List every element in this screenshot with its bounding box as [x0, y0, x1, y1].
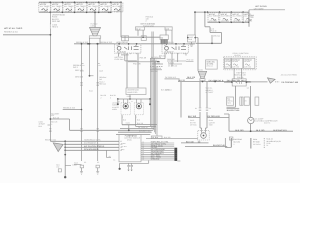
ignition switch contact (staircase): [196, 11, 222, 44]
wire - trunk YEL 97: [97, 43, 99, 161]
svg-text:RED 2: RED 2: [52, 26, 59, 29]
wire - long horn feed horizontal: [178, 81, 251, 83]
label - horn right flag: [229, 137, 233, 140]
svg-text:ASSY 4: ASSY 4: [264, 122, 270, 125]
svg-text:2: 2: [51, 123, 52, 126]
svg-text:CONTROL MODULE: CONTROL MODULE: [124, 137, 141, 140]
wire - horn feed from left trunk: [50, 116, 70, 130]
underhood fuse block bus (bottom): [39, 11, 109, 13]
svg-text:BRN 241: BRN 241: [159, 54, 166, 57]
theft relay box: [224, 68, 251, 89]
legend column 1: [225, 138, 242, 148]
wire - ip fuse stub down: [249, 10, 255, 27]
fusible link A (funnel symbol): [89, 11, 100, 38]
svg-text:ALL TIMES: ALL TIMES: [100, 5, 110, 8]
connector C100 on drop: [50, 23, 59, 29]
wire - ignition feed 2: [136, 27, 173, 44]
fuse F4: [75, 2, 87, 13]
svg-text:C2 BLU: C2 BLU: [165, 88, 172, 91]
svg-text:ALL TIMES: ALL TIMES: [76, 5, 86, 8]
connector C on feed: [122, 36, 147, 41]
svg-text:SWITCH ASM: SWITCH ASM: [143, 24, 154, 27]
legend column 3: [264, 138, 281, 148]
svg-text:FUSE BLK: FUSE BLK: [115, 58, 125, 61]
junction box S139: [126, 88, 146, 100]
svg-text:ALL TIMES: ALL TIMES: [64, 5, 74, 8]
svg-text:150: 150: [56, 166, 59, 169]
svg-text:OF DASH: OF DASH: [253, 143, 261, 146]
fuse F13 (ip): [232, 13, 243, 23]
label - trunk pin C2 flags: [82, 64, 101, 68]
svg-text:ORN 340: ORN 340: [153, 61, 161, 64]
svg-text:PNK 39: PNK 39: [140, 56, 147, 59]
PCM box: [119, 135, 141, 162]
wire - right bottom return: [181, 82, 293, 132]
wire - horn ground lines: [181, 141, 227, 148]
stub - aux vertical: [107, 150, 112, 158]
svg-text:BLK 150: BLK 150: [234, 141, 241, 144]
svg-text:RED/BLK 342: RED/BLK 342: [100, 41, 112, 44]
relay K2 - a/c relay (dashed box): [162, 41, 188, 54]
svg-text:3: 3: [146, 20, 147, 23]
svg-text:PCM IGN FEED: PCM IGN FEED: [84, 148, 99, 151]
fuse F5: [87, 2, 99, 13]
wire bundle to PCM (6 wires): [151, 32, 157, 137]
svg-text:DK GRN 28 .8: DK GRN 28 .8: [209, 79, 224, 82]
fuse F12 (ip): [220, 13, 231, 23]
a/c compressor clutch coil: [248, 117, 279, 131]
svg-text:ALL TIMES: ALL TIMES: [233, 15, 243, 18]
label - hot at all times (left): [4, 27, 23, 33]
label - underhood fuse block name: [52, 14, 66, 24]
svg-text:342 2: 342 2: [73, 66, 78, 69]
junction block (3 breakers): [224, 52, 257, 70]
fuse F7: [111, 2, 123, 13]
label - C1 connector flag: [146, 136, 198, 139]
svg-text:ALL TIMES: ALL TIMES: [88, 5, 98, 8]
fuse F1: [39, 2, 51, 13]
inline connectors on horn wires: [195, 107, 211, 111]
svg-text:OF ENG: OF ENG: [190, 124, 197, 127]
svg-text:ALL TIMES: ALL TIMES: [221, 15, 231, 18]
svg-text:ALL TIMES: ALL TIMES: [52, 5, 62, 8]
svg-text:A/C CLUTCH STATUS: A/C CLUTCH STATUS: [84, 145, 105, 148]
svg-text:RED 442: RED 442: [99, 83, 106, 86]
horn bus: [117, 98, 151, 105]
wire - main feed drop from fuse block: [49, 12, 51, 141]
horn right (dashed box): [134, 99, 144, 127]
wire - drop to ground module: [194, 11, 196, 35]
svg-text:C2: C2: [84, 161, 86, 164]
label - right of feed wire: [146, 16, 154, 23]
wire - stacked horizontals to bundle: [70, 125, 157, 135]
svg-text:BLK 150: BLK 150: [164, 136, 171, 139]
svg-text:ORN 340: ORN 340: [213, 35, 220, 38]
svg-text:PNK 39: PNK 39: [211, 29, 217, 32]
svg-text:DK GRN 28: DK GRN 28: [138, 126, 148, 129]
horn H1 (dashed box with circle): [198, 82, 209, 141]
fusible link C (right funnel): [251, 73, 299, 84]
horn left (dashed box): [121, 99, 131, 125]
underhood fuse block bus (top): [39, 1, 121, 3]
fuse F14 (ip): [243, 13, 254, 23]
wire - trunk RED 81: [81, 43, 83, 161]
ignition switch body: [160, 35, 168, 44]
wire - battery feed left: [3, 34, 51, 36]
wire - K2 pin drops: [165, 53, 186, 66]
ip fuse block bus (top right): [195, 11, 250, 23]
svg-text:ALL TIMES: ALL TIMES: [40, 5, 50, 8]
wire - main bus to relays: [74, 38, 195, 44]
svg-text:S141: S141: [126, 122, 130, 125]
svg-text:ORN 640: ORN 640: [75, 76, 83, 79]
label - inst panel fuse block: [115, 56, 147, 66]
svg-text:BLK/WHT 451: BLK/WHT 451: [273, 129, 287, 132]
svg-text:BLK/WHT 451: BLK/WHT 451: [139, 130, 150, 133]
label - hot in run (top right): [249, 5, 285, 10]
svg-text:HORN RELAY: HORN RELAY: [116, 41, 129, 44]
svg-text:DK GRN 459: DK GRN 459: [208, 115, 221, 118]
svg-text:G101: G101: [74, 161, 78, 164]
svg-text:HORN: HORN: [112, 108, 118, 111]
svg-text:3: 3: [110, 96, 111, 99]
label - bundle wire names: [137, 88, 172, 132]
capacitors under PCM: [113, 158, 148, 171]
label - wire flags center: [150, 54, 186, 91]
label - under cluster box: [206, 87, 214, 94]
svg-text:S112: S112: [89, 90, 93, 93]
fusible link D (bottom left funnel): [53, 141, 66, 177]
connector chip bar: [174, 148, 180, 161]
label - left connector: [39, 112, 61, 131]
svg-text:PNK 39: PNK 39: [237, 76, 243, 79]
labels - PCM left wires: [45, 139, 122, 152]
svg-text:A/C CLUTCH FEED: A/C CLUTCH FEED: [281, 73, 298, 76]
svg-text:A/C REQUEST: A/C REQUEST: [84, 142, 97, 145]
svg-text:LAMP FEED: LAMP FEED: [127, 91, 138, 94]
svg-text:2: 2: [250, 18, 251, 21]
labels - bottom left ground: [56, 163, 76, 178]
splice S141: [122, 122, 136, 132]
fuse F3: [63, 2, 75, 13]
connector dashes on trunks: [80, 129, 98, 132]
svg-text:C2: C2: [247, 86, 249, 89]
svg-text:LINK A: LINK A: [91, 24, 97, 27]
label - under junction block: [235, 71, 247, 78]
svg-text:RED 342: RED 342: [52, 20, 61, 23]
svg-text:GROUND: GROUND: [151, 158, 160, 161]
svg-text:BLK/WHT 451: BLK/WHT 451: [213, 144, 227, 147]
fuse F2: [51, 2, 63, 13]
instrument cluster box: [206, 60, 218, 69]
label - right notes: [190, 119, 215, 126]
svg-text:SW: SW: [160, 36, 163, 39]
svg-text:RED/BLK 342: RED/BLK 342: [45, 139, 56, 142]
svg-text:PNK 239: PNK 239: [133, 63, 141, 66]
wire - ignition feed 1: [121, 2, 160, 37]
svg-text:21: 21: [266, 144, 268, 147]
label - above note block: [101, 94, 116, 99]
svg-text:HORN RELAY CTRL: HORN RELAY CTRL: [84, 139, 101, 142]
svg-text:BLK 150: BLK 150: [186, 141, 195, 144]
fuse F11 (ip): [208, 13, 219, 23]
svg-text:DK GRN/WHT 459: DK GRN/WHT 459: [281, 81, 299, 84]
svg-text:BLK 28: BLK 28: [137, 122, 143, 125]
svg-text:BLK 28: BLK 28: [178, 79, 185, 82]
inline connectors on trunks: [80, 70, 107, 93]
label - note block left: [112, 101, 120, 111]
PCM right pins and net labels: [141, 141, 174, 161]
wire - trunk ORN 89: [89, 43, 91, 76]
svg-text:HOT AT ALL TIMES: HOT AT ALL TIMES: [4, 27, 23, 30]
wires - into PCM left: [50, 140, 119, 151]
svg-text:WHL C2: WHL C2: [206, 65, 212, 68]
relay K1 - horn relay (dashed box): [115, 41, 141, 54]
svg-text:RED 142: RED 142: [75, 69, 83, 72]
svg-text:2: 2: [234, 143, 235, 146]
junction dots on fuse bus: [50, 1, 122, 13]
connector ends of trunks: [74, 161, 99, 174]
svg-text:RED/BLK 4 GA: RED/BLK 4 GA: [4, 30, 18, 33]
wire - from module to funnel wire: [196, 38, 199, 71]
label - horn pins: [119, 100, 141, 122]
relay output drops (right): [235, 86, 250, 117]
label - flags above: [165, 59, 196, 79]
svg-text:BLK 150: BLK 150: [235, 129, 244, 132]
svg-text:451: 451: [51, 114, 54, 117]
label - trunk wires: [73, 64, 94, 79]
svg-text:BLK 150: BLK 150: [256, 129, 265, 132]
svg-text:C2: C2: [97, 161, 99, 164]
connector row boxes (right): [227, 97, 259, 112]
fuse F6: [99, 2, 111, 13]
legend column 2: [250, 138, 261, 149]
module box with ground: [187, 35, 196, 46]
svg-text:2: 2: [101, 96, 102, 99]
label - dark flags on horn feed: [178, 79, 250, 82]
svg-text:DK GRN 28: DK GRN 28: [168, 64, 177, 67]
svg-text:BLOCK: BLOCK: [235, 54, 242, 57]
fusible link B (funnel): [198, 68, 206, 80]
svg-text:ALL TIMES: ALL TIMES: [209, 15, 219, 18]
label - key in ign: [141, 23, 156, 28]
label - wire flag mid-left: [63, 107, 83, 111]
wire - K1 pin drops: [119, 53, 151, 88]
svg-text:BLK/WHT 451: BLK/WHT 451: [227, 109, 241, 112]
